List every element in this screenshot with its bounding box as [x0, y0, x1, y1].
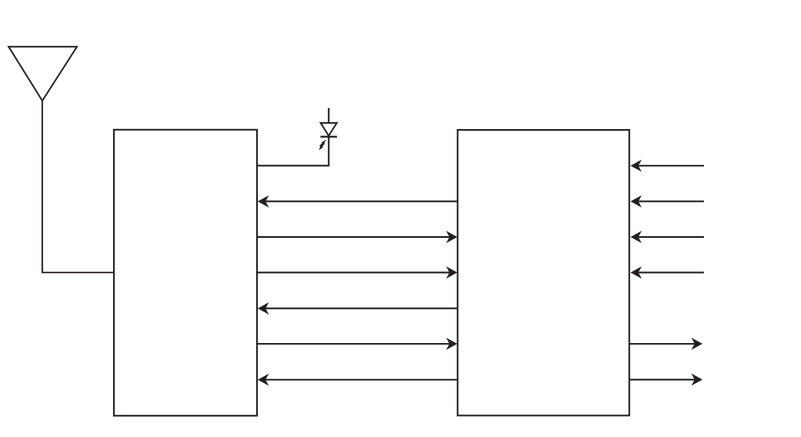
block U2 (right, controller) [458, 130, 630, 416]
wire arrow input into U2 (right side, rail y=237.0) [639, 236, 704, 238]
wire arrow U2 to U1 (rail y=379.7) [266, 379, 458, 381]
wire arrow U1 to U2 (rail y=343.8) [257, 343, 450, 345]
wire arrow output from U2 (right side, rail y=343.3) [629, 343, 695, 345]
LED D1 anode pin (top lead) [328, 108, 330, 123]
wire arrow U1 to U2 (rail y=272.5) [257, 272, 450, 274]
wire antenna feed to left block [42, 100, 114, 273]
wire arrow input into U2 (right side, rail y=272.5) [639, 272, 704, 274]
LED D1 cathode bar [320, 136, 337, 138]
wire arrow input into U2 (right side, rail y=201.4) [639, 200, 704, 202]
wire arrow input into U2 (right side, rail y=165.7) [639, 165, 704, 167]
wire LED cathode to left block [257, 137, 329, 166]
LED D1 diode triangle [321, 123, 337, 136]
wire arrow U1 to U2 (rail y=237) [257, 236, 450, 238]
block U1 (left, RF transceiver) [114, 130, 257, 416]
wire arrow U2 to U1 (rail y=201) [266, 200, 458, 202]
LED D1 light-emission bolt arrow [319, 140, 325, 149]
antenna ANT [9, 47, 77, 101]
wire arrow output from U2 (right side, rail y=379.2) [629, 379, 695, 381]
wire arrow U2 to U1 (rail y=308.4) [266, 307, 458, 309]
